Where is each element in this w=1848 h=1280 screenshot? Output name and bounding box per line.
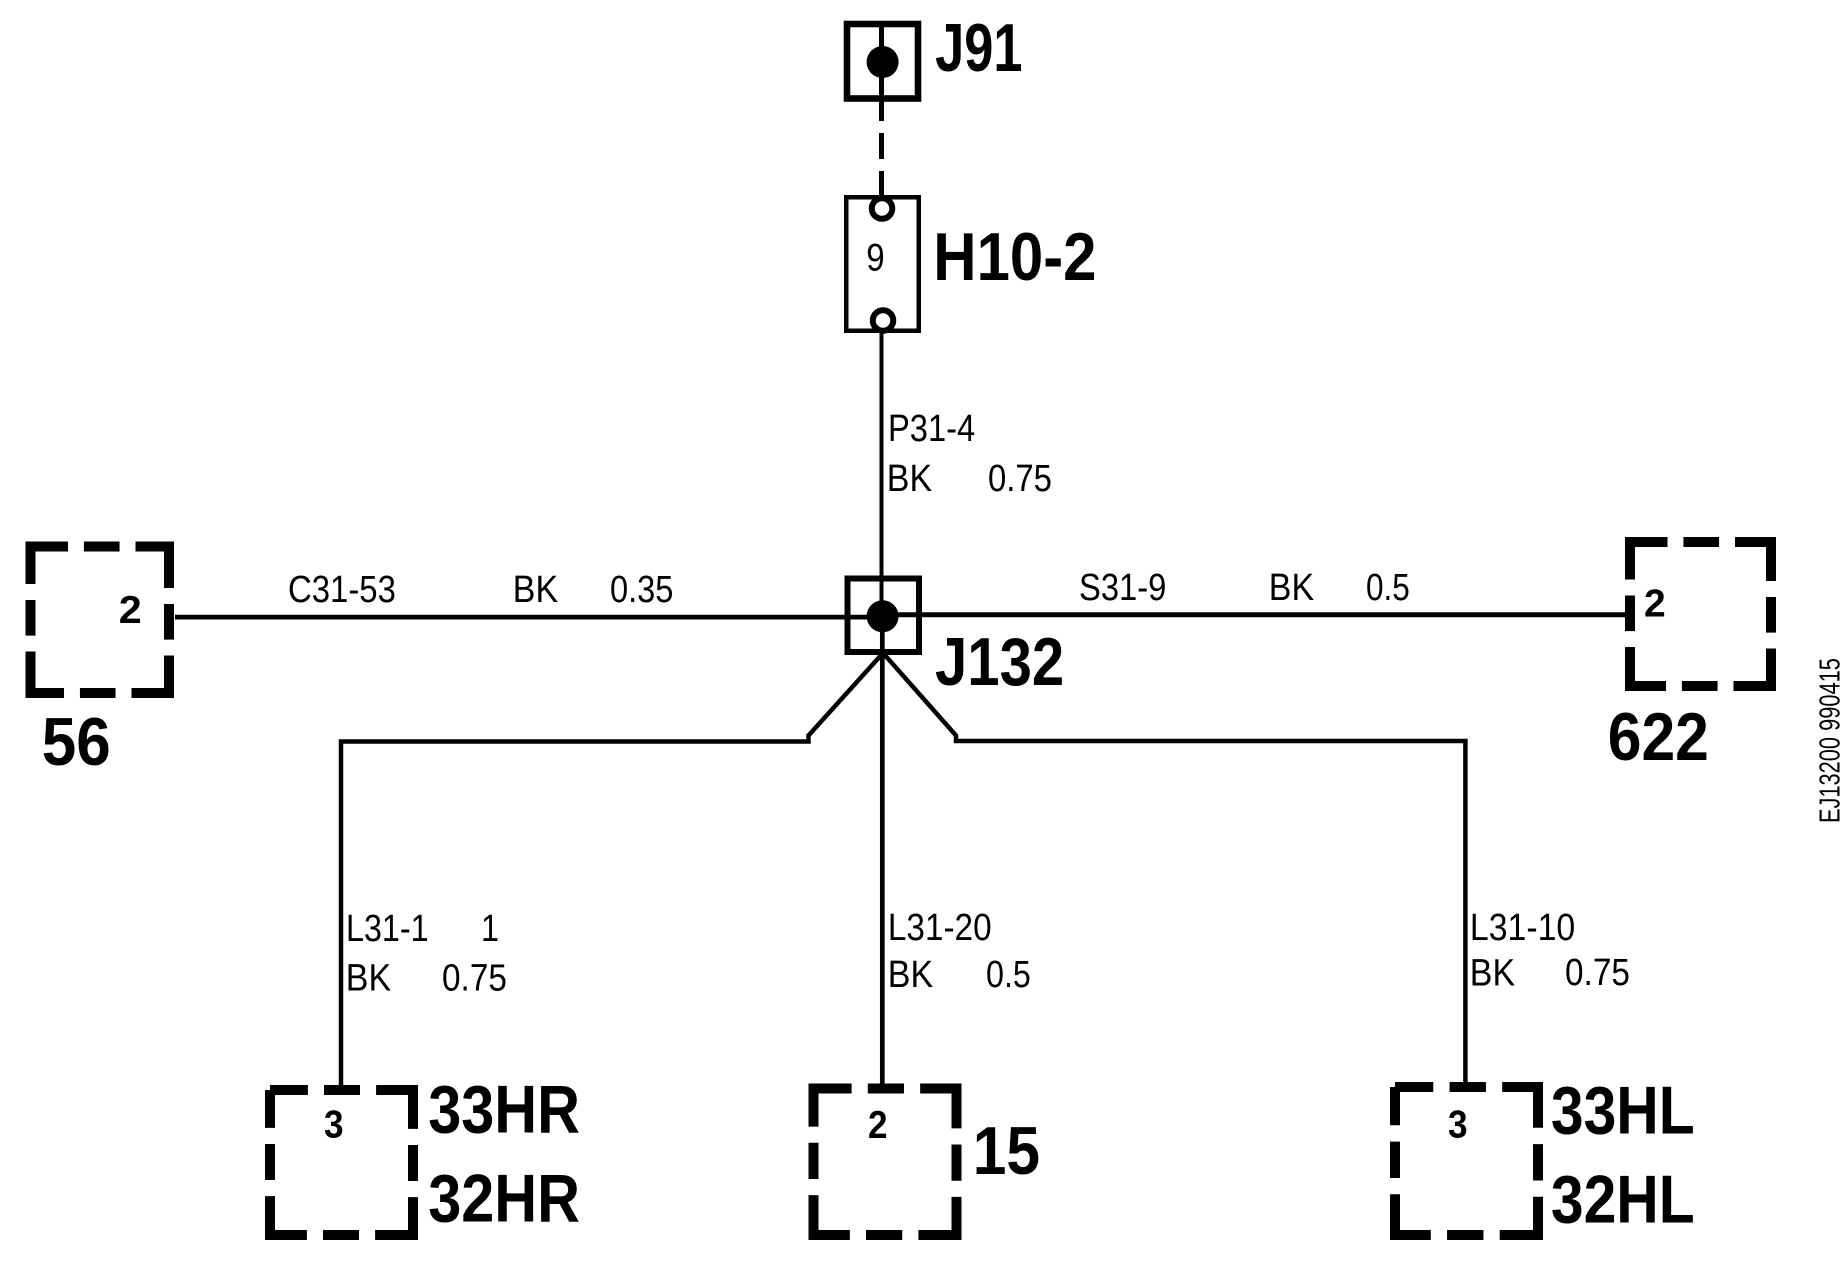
svg-text:BK: BK (346, 956, 391, 999)
wire: dashed J91 to H10-2 (879, 133, 884, 196)
wire: J91 stub vertical (879, 24, 884, 121)
svg-text:9: 9 (866, 235, 884, 279)
svg-text:32HR: 32HR (428, 1160, 580, 1237)
wire label L31-10 BK 0.75 (1470, 905, 1630, 994)
svg-text:P31-4: P31-4 (888, 407, 975, 450)
wire: J132 to 622 horizontal (883, 612, 1626, 617)
svg-text:33HL: 33HL (1551, 1073, 1695, 1149)
svg-text:15: 15 (973, 1113, 1040, 1189)
svg-text:32HL: 32HL (1551, 1162, 1695, 1238)
svg-text:J132: J132 (935, 625, 1064, 700)
svg-text:S31-9: S31-9 (1079, 566, 1166, 609)
svg-text:C31-53: C31-53 (288, 568, 396, 611)
connector 33HR/32HR (dashed) (270, 1090, 413, 1235)
svg-text:BK: BK (1269, 565, 1314, 608)
wire: right diagonal from J132 (883, 653, 1465, 1082)
svg-text:0.5: 0.5 (1366, 566, 1410, 608)
connector 15 (dashed) (814, 1089, 957, 1236)
wire label P31-4 BK 0.75 (887, 407, 1052, 500)
svg-text:3: 3 (324, 1102, 344, 1146)
svg-text:622: 622 (1608, 699, 1709, 775)
svg-text:L31-20: L31-20 (888, 906, 992, 949)
wire label C31-53 BK 0.35 (288, 567, 673, 610)
svg-text:BK: BK (513, 567, 558, 610)
connector 56 (dashed) (31, 547, 170, 694)
svg-text:56: 56 (42, 703, 111, 779)
connector 622 (dashed) (1630, 542, 1771, 686)
connector 33HL/32HL (dashed) (1395, 1087, 1538, 1235)
splice J91 (847, 24, 918, 99)
wire: left diagonal from J132 (341, 653, 883, 1085)
svg-text:H10-2: H10-2 (933, 218, 1096, 294)
svg-text:0.5: 0.5 (986, 954, 1031, 996)
wire: 56 to J132 horizontal (175, 615, 883, 620)
svg-text:0.35: 0.35 (610, 568, 673, 611)
svg-text:EJ13200 990415: EJ13200 990415 (1815, 658, 1847, 823)
svg-text:BK: BK (888, 952, 933, 995)
svg-text:0.75: 0.75 (988, 457, 1052, 500)
svg-text:L31-1: L31-1 (346, 908, 429, 950)
svg-text:2: 2 (868, 1102, 888, 1146)
svg-text:3: 3 (1448, 1102, 1468, 1146)
svg-text:1: 1 (481, 908, 499, 950)
wire label L31-20 BK 0.5 (888, 906, 1031, 996)
wire: center vertical J132 to 15 (880, 616, 885, 1084)
connector H10-2 (846, 197, 919, 331)
wire label L31-1 1 BK 0.75 (346, 908, 507, 999)
svg-text:2: 2 (119, 588, 142, 632)
wire label S31-9 BK 0.5 (1079, 565, 1410, 608)
svg-text:J91: J91 (935, 9, 1022, 85)
wire: H10-2 to J132 (880, 331, 884, 616)
svg-text:L31-10: L31-10 (1470, 905, 1575, 948)
svg-text:BK: BK (1470, 951, 1515, 994)
svg-text:0.75: 0.75 (1565, 951, 1630, 994)
svg-text:0.75: 0.75 (442, 956, 507, 999)
svg-text:BK: BK (887, 456, 932, 499)
svg-text:2: 2 (1644, 583, 1666, 626)
svg-text:33HR: 33HR (428, 1071, 580, 1148)
junction J132 (848, 579, 920, 653)
